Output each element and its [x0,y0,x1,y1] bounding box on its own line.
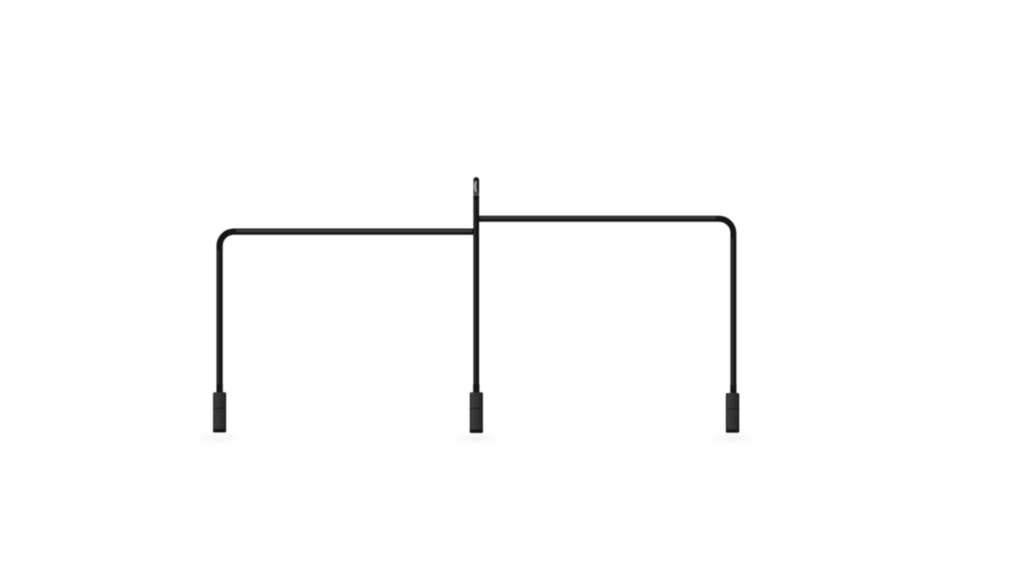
left tube assembly: leg + bend + lower rail [220,232,477,393]
right foot seam [726,408,739,410]
center tube collar seam [474,193,479,196]
left leg collar above foot [217,384,223,393]
left foot base band [213,429,226,433]
left foot [213,392,226,432]
middle foot seam [470,407,483,409]
center tube top cap highlight [474,181,477,192]
right tube assembly: upper rail + bend + leg [476,219,733,394]
right leg collar above foot [730,385,736,394]
floor shadow middle foot [456,435,494,442]
highlight on center tube [474,200,476,390]
right foot base band [726,429,739,433]
middle foot base band [470,429,483,433]
highlight on left leg [217,250,219,390]
highlight on right leg [731,238,733,391]
floor shadow left foot [199,435,237,442]
right foot [726,393,739,433]
floor shadow right foot [712,435,750,442]
center upright tube [473,180,479,393]
highlight on upper rail [480,217,716,219]
middle foot [470,392,483,433]
highlight on lower rail [236,230,472,232]
middle tube collar above foot [473,384,479,393]
left foot seam [213,407,226,409]
